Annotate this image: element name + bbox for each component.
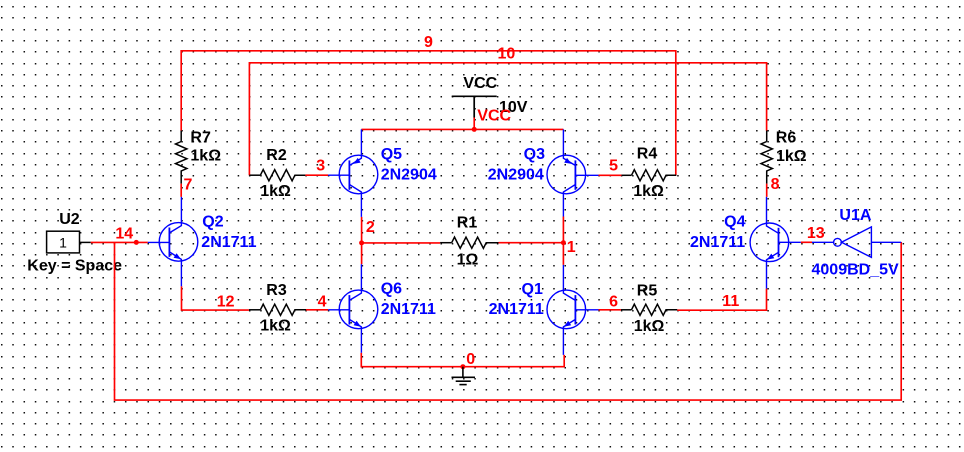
transistor Q1 emitter arrow bbox=[564, 321, 571, 327]
wire net 9 (R7 top to R4 right) bbox=[181, 51, 676, 176]
svg-text:R4: R4 bbox=[637, 146, 658, 163]
svg-text:R2: R2 bbox=[266, 147, 287, 164]
svg-text:7: 7 bbox=[184, 177, 193, 194]
svg-text:1kΩ: 1kΩ bbox=[776, 148, 807, 165]
wire net VCC (Q5 top to Q3 top) bbox=[361, 128, 563, 130]
svg-text:Q5: Q5 bbox=[381, 146, 402, 163]
wire net 14 (U2 to Q2 base and feedback loop) bbox=[91, 242, 901, 400]
transistor Q1 (NPN 2N1711, mirrored) bbox=[547, 265, 599, 355]
transistor Q2 emitter arrow bbox=[174, 253, 181, 259]
svg-text:Q3: Q3 bbox=[524, 146, 545, 163]
svg-text:VCC: VCC bbox=[463, 75, 497, 92]
svg-text:3: 3 bbox=[316, 158, 325, 175]
svg-text:VCC: VCC bbox=[477, 107, 511, 124]
wire net 7 bbox=[180, 184, 182, 197]
svg-text:2N1711: 2N1711 bbox=[381, 301, 436, 318]
svg-text:2N2904: 2N2904 bbox=[381, 167, 437, 184]
svg-text:Q2: Q2 bbox=[202, 214, 223, 231]
transistor Q4 (NPN 2N1711, mirrored) bbox=[750, 197, 801, 289]
svg-text:8: 8 bbox=[771, 176, 780, 193]
inverter U1A (4009BD_5V) bbox=[812, 227, 901, 258]
svg-text:10: 10 bbox=[498, 46, 516, 63]
svg-text:1kΩ: 1kΩ bbox=[634, 318, 665, 335]
transistor Q5 (PNP 2N2904) bbox=[328, 129, 378, 217]
svg-text:11: 11 bbox=[722, 293, 739, 310]
svg-text:1: 1 bbox=[59, 234, 67, 250]
svg-text:2: 2 bbox=[366, 219, 375, 236]
svg-text:6: 6 bbox=[609, 293, 618, 310]
svg-text:Key = Space: Key = Space bbox=[27, 258, 122, 275]
switch U2 bbox=[47, 231, 91, 253]
transistor Q3 (PNP 2N2904, mirrored) bbox=[547, 129, 599, 216]
svg-text:R3: R3 bbox=[266, 282, 287, 299]
svg-text:13: 13 bbox=[807, 225, 825, 242]
svg-text:R1: R1 bbox=[457, 214, 478, 231]
svg-text:5: 5 bbox=[609, 158, 618, 175]
svg-text:R5: R5 bbox=[637, 282, 658, 299]
svg-text:14: 14 bbox=[115, 225, 133, 242]
junction dot VCC bbox=[472, 127, 477, 132]
svg-text:2N1711: 2N1711 bbox=[201, 234, 256, 251]
wire net 1 bbox=[499, 217, 564, 265]
svg-text:9: 9 bbox=[424, 34, 433, 51]
power symbol VCC bbox=[452, 96, 497, 117]
junction dot node 1 bbox=[561, 240, 566, 245]
svg-text:Q6: Q6 bbox=[381, 280, 402, 297]
resistor R2 bbox=[250, 170, 306, 181]
resistor R1 bbox=[440, 237, 498, 248]
svg-text:1kΩ: 1kΩ bbox=[190, 148, 221, 165]
transistor Q5 emitter arrow bbox=[353, 158, 360, 164]
transistor Q3 emitter arrow bbox=[564, 158, 571, 164]
resistor R5 bbox=[621, 304, 677, 315]
wire net 10 (R2 left to R6 top) bbox=[249, 63, 766, 175]
wire net 5 bbox=[599, 174, 622, 176]
junction dot node 14 bbox=[134, 240, 139, 245]
wire net 8 bbox=[766, 184, 768, 197]
svg-text:0: 0 bbox=[466, 351, 475, 368]
svg-text:4009BD_5V: 4009BD_5V bbox=[812, 262, 900, 279]
svg-text:12: 12 bbox=[217, 293, 235, 310]
svg-text:Q1: Q1 bbox=[522, 281, 543, 298]
resistor R7 bbox=[176, 131, 187, 184]
wire net 11 bbox=[677, 289, 766, 311]
svg-text:U1A: U1A bbox=[839, 207, 871, 224]
junction dot node 0 bbox=[460, 364, 465, 369]
resistor R3 bbox=[249, 304, 306, 315]
resistor R4 bbox=[622, 170, 677, 181]
svg-text:Q4: Q4 bbox=[724, 214, 745, 231]
svg-text:1kΩ: 1kΩ bbox=[260, 318, 291, 335]
svg-text:2N1711: 2N1711 bbox=[489, 301, 544, 318]
wire net 12 bbox=[182, 286, 249, 310]
svg-text:4: 4 bbox=[318, 293, 327, 310]
svg-text:R6: R6 bbox=[776, 129, 797, 146]
svg-text:1kΩ: 1kΩ bbox=[633, 183, 664, 200]
wire net 3 bbox=[305, 174, 328, 176]
transistor Q2 (NPN 2N1711) bbox=[148, 197, 198, 286]
transistor Q6 (NPN 2N1711) bbox=[328, 264, 378, 353]
svg-text:U2: U2 bbox=[59, 211, 80, 228]
resistor R6 bbox=[761, 131, 772, 184]
svg-text:2N1711: 2N1711 bbox=[690, 234, 745, 251]
wire net 2 bbox=[362, 217, 441, 264]
svg-text:1Ω: 1Ω bbox=[457, 252, 479, 269]
transistor Q6 emitter arrow bbox=[354, 321, 361, 327]
svg-text:1kΩ: 1kΩ bbox=[260, 183, 291, 200]
svg-text:2N2904: 2N2904 bbox=[488, 167, 544, 184]
wire net 6 bbox=[599, 309, 621, 311]
svg-text:R7: R7 bbox=[190, 129, 211, 146]
wire net 4 bbox=[306, 309, 328, 311]
transistor Q4 emitter arrow bbox=[767, 254, 774, 260]
svg-text:1: 1 bbox=[567, 239, 576, 256]
wire VCC stub bbox=[473, 118, 475, 130]
wire net 0 (ground rail) bbox=[361, 353, 564, 367]
ground symbol bbox=[452, 367, 476, 385]
wire net 13 (Q4 base to U1A) bbox=[801, 241, 812, 243]
junction dot node 2 bbox=[359, 240, 364, 245]
